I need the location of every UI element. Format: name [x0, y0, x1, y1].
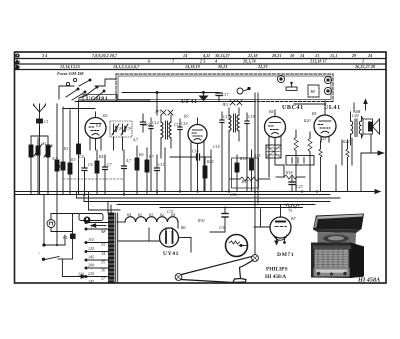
tube UBC41 label	[282, 105, 304, 111]
svg-text:R16: R16	[239, 156, 246, 161]
label Fono-GM-DE	[57, 71, 84, 76]
mains autotransformer	[109, 213, 118, 282]
choke tap labels	[127, 212, 175, 217]
svg-text:4,11: 4,11	[202, 53, 210, 58]
dashed socket box B9	[308, 85, 319, 97]
pilot lamp	[47, 214, 79, 232]
svg-text:HI 458/A: HI 458/A	[265, 274, 286, 280]
wires under tubes to bus	[90, 136, 281, 155]
AVC dashed line	[63, 178, 123, 180]
wave change switch S1	[66, 78, 116, 100]
svg-text:64: 64	[127, 212, 131, 217]
svg-text:200: 200	[88, 263, 94, 268]
svg-text:C11: C11	[158, 162, 164, 167]
top rail y101.5	[75, 101, 255, 103]
svg-text:R6: R6	[138, 152, 143, 157]
padder trimmer dotted box	[110, 121, 132, 137]
antenna	[34, 104, 46, 194]
svg-text:35: 35	[101, 260, 105, 265]
wire inside chassis box	[122, 92, 219, 94]
resistor R16 vertical	[235, 155, 239, 179]
svg-text:110: 110	[88, 237, 94, 242]
ground near dashed box	[200, 93, 208, 101]
svg-text:B5: B5	[312, 111, 316, 116]
svg-text:14: 14	[183, 53, 187, 58]
svg-text:230: 230	[78, 272, 84, 277]
svg-text:B:: B:	[15, 64, 21, 69]
tube DM71 label	[277, 252, 294, 258]
svg-text:DM71: DM71	[277, 252, 294, 258]
left component row: C7	[103, 155, 108, 194]
tube UL41 B5	[312, 108, 336, 142]
svg-text:75: 75	[288, 208, 292, 213]
svg-text:KL: KL	[62, 235, 69, 240]
svg-text:PHILIPS: PHILIPS	[266, 267, 288, 273]
dial lamp box	[79, 214, 103, 224]
socket circle left	[277, 75, 284, 82]
speaker cone frame	[181, 257, 253, 283]
staircase feed lines	[77, 192, 341, 208]
chassis rear dashed box	[116, 74, 333, 102]
svg-text:R15: R15	[253, 153, 260, 158]
resistor 22k below tube	[77, 142, 81, 194]
component box right of UBC41	[286, 156, 314, 166]
svg-text:C44: C44	[352, 113, 359, 118]
svg-text:C12: C12	[152, 120, 159, 125]
JF1 side caps	[149, 118, 182, 138]
svg-text:A:: A:	[15, 59, 21, 64]
cap C23	[289, 177, 295, 192]
svg-text:C13: C13	[174, 122, 181, 127]
component C11	[155, 155, 160, 194]
svg-text:Fono-GM-DE: Fono-GM-DE	[57, 71, 84, 76]
svg-text:12,14,13,15: 12,14,13,15	[60, 64, 80, 69]
svg-text:14,18,19: 14,18,19	[185, 64, 201, 69]
table row C numbers	[41, 53, 372, 58]
svg-text:145: 145	[88, 255, 94, 260]
up arrow below box right	[355, 100, 367, 115]
IF transformer JF2	[229, 100, 242, 150]
title table lines	[15, 59, 387, 70]
svg-text:C31: C31	[167, 209, 174, 214]
svg-text:R21: R21	[319, 136, 326, 141]
svg-text:22,18: 22,18	[247, 53, 258, 58]
svg-text:B4: B4	[269, 109, 273, 114]
tube UBC41 B4	[265, 109, 286, 150]
mains switch	[38, 235, 73, 260]
socket circles right pair	[324, 76, 331, 94]
svg-text:C9: C9	[126, 126, 131, 131]
right edge arrow	[361, 151, 384, 191]
filter choke	[117, 217, 178, 228]
svg-text:33: 33	[101, 242, 105, 247]
network box around R15 R16	[232, 158, 259, 188]
svg-text:B9: B9	[311, 89, 315, 94]
KL connector	[62, 214, 75, 260]
svg-text:14,1,2,3,4,5,6,7: 14,1,2,3,4,5,6,7	[113, 64, 140, 69]
svg-text:C4: C4	[79, 154, 84, 159]
speaker eyelet left	[175, 274, 182, 281]
long vertical pair wires	[247, 93, 258, 254]
svg-text:R30: R30	[197, 218, 204, 223]
main bus with arrow	[15, 190, 381, 194]
svg-text:C17: C17	[222, 92, 230, 97]
svg-text:R20: R20	[303, 118, 310, 123]
svg-text:13: 13	[315, 53, 319, 58]
output transformer	[351, 112, 364, 145]
svg-text:B2: B2	[103, 113, 107, 118]
svg-text:R22: R22	[342, 139, 349, 144]
svg-text:C23: C23	[296, 184, 303, 189]
label JF2	[222, 102, 228, 107]
resistor R20 zigzag	[308, 132, 312, 191]
svg-text:B6: B6	[181, 225, 185, 230]
svg-text:UL41: UL41	[324, 105, 341, 111]
tube UCH81 B2	[85, 112, 107, 150]
radio illustration	[311, 214, 364, 279]
left component row: R2	[55, 150, 59, 194]
svg-text:C30: C30	[230, 192, 237, 197]
top rail y108.5 left	[63, 108, 95, 110]
speaker magnet	[226, 235, 248, 257]
resistor R27 zigzag	[319, 141, 322, 191]
tube DM71 B7	[270, 205, 296, 245]
svg-text:2 3: 2 3	[199, 59, 205, 64]
left component row: R3	[68, 150, 72, 194]
svg-text:245: 245	[88, 279, 94, 284]
svg-text:UBC41: UBC41	[282, 105, 304, 111]
antenna coil L1	[29, 136, 33, 194]
value labels scatter	[41, 113, 359, 223]
svg-text:HI 458A: HI 458A	[357, 277, 380, 284]
svg-text:61: 61	[138, 212, 142, 217]
svg-text:C10: C10	[143, 122, 150, 127]
left component row: C5	[61, 152, 65, 194]
IF transformer JF1	[161, 110, 173, 158]
resistor R24 horizontal	[286, 204, 299, 213]
resistor R19 zigzag	[294, 130, 298, 191]
svg-text:C6: C6	[88, 162, 93, 167]
svg-text:15,1: 15,1	[330, 53, 337, 58]
top rail y104	[294, 103, 326, 105]
svg-text:34: 34	[101, 251, 105, 256]
speaker eyelet right	[252, 255, 259, 262]
resistor R18	[276, 175, 305, 179]
oscillator stage box	[79, 100, 151, 142]
component R6	[135, 146, 139, 194]
svg-text:C18: C18	[223, 114, 230, 119]
svg-text:R1: R1	[63, 146, 68, 151]
svg-text:B3: B3	[184, 114, 188, 119]
radio handwritten label HI458A	[357, 277, 380, 284]
svg-text:JF2: JF2	[222, 102, 228, 107]
resistor R15 vertical	[250, 150, 254, 179]
svg-text:UCH81: UCH81	[86, 96, 108, 102]
svg-text:C15: C15	[181, 121, 188, 126]
svg-text:213,18 17: 213,18 17	[309, 59, 328, 64]
left component row: R4	[95, 150, 99, 194]
svg-text:4: 4	[214, 59, 217, 64]
svg-text:C1: C1	[44, 119, 49, 124]
tube UL41 label	[324, 105, 341, 111]
svg-text:24: 24	[367, 53, 372, 58]
ground bus second line	[15, 194, 331, 196]
svg-text:C8: C8	[117, 126, 122, 131]
svg-text:C19: C19	[248, 114, 255, 119]
radio grille texture	[315, 250, 349, 268]
svg-text:30,13,27: 30,13,27	[214, 53, 231, 58]
svg-text:JF1: JF1	[155, 109, 161, 114]
PHILIPS label	[265, 267, 288, 281]
misc vertical wires to bus	[151, 93, 354, 192]
resistor R22 zigzag	[342, 140, 349, 191]
svg-text:C16: C16	[192, 149, 199, 154]
transformer taps	[85, 222, 109, 278]
capacitor C10	[141, 114, 146, 132]
svg-text:20,1,74: 20,1,74	[242, 59, 256, 64]
transformer feed arrows	[90, 224, 106, 234]
loudspeaker	[363, 119, 380, 153]
svg-text:3 4: 3 4	[41, 53, 47, 58]
svg-text:20,21: 20,21	[217, 64, 227, 69]
tube UY41 B6	[160, 225, 186, 247]
svg-text:C:: C:	[16, 53, 21, 58]
capacitor C30	[219, 207, 228, 230]
capacitor C17 by dashed box	[216, 92, 230, 101]
svg-text:C14: C14	[213, 144, 220, 149]
svg-text:2: 2	[90, 226, 92, 231]
component R7	[145, 148, 149, 194]
resistor R25 vertical	[203, 157, 207, 191]
component C9 cap	[122, 150, 127, 194]
wire antenna top	[31, 127, 48, 136]
phono pickup jack	[237, 87, 250, 94]
svg-text:220: 220	[88, 271, 94, 276]
table row A label	[15, 59, 21, 64]
svg-text:A2: A2	[51, 156, 56, 161]
table row A numbers	[148, 59, 364, 64]
tube UF41 label	[181, 99, 197, 105]
capacitor C16 horizontal	[170, 149, 211, 161]
svg-text:63: 63	[149, 212, 153, 217]
svg-text:R4: R4	[98, 154, 103, 159]
potentiometer 4.7M in box	[286, 82, 297, 90]
svg-text:1: 1	[362, 59, 364, 64]
electrolytic block C22	[266, 138, 281, 177]
tap voltage labels	[88, 224, 106, 285]
svg-text:7,8,9,20,2 20,7: 7,8,9,20,2 20,7	[92, 53, 118, 58]
mains lead arrow	[62, 259, 86, 278]
svg-text:22,23: 22,23	[257, 64, 267, 69]
interconnect wires top left	[57, 86, 74, 152]
JF2 side caps	[220, 112, 249, 132]
table row B numbers	[60, 64, 376, 69]
svg-text:36: 36	[101, 268, 105, 273]
svg-text:62: 62	[160, 212, 164, 217]
DM71 wires	[254, 209, 270, 227]
svg-text:28,21: 28,21	[271, 53, 281, 58]
tube UCH81 label	[83, 95, 117, 103]
svg-text:29: 29	[351, 53, 357, 58]
resistor network below UBC41: R17	[230, 177, 270, 181]
svg-text:R17: R17	[241, 179, 249, 184]
antenna trimmer C3	[34, 138, 42, 194]
table row C label	[16, 53, 21, 58]
svg-text:26,25,27 28: 26,25,27 28	[354, 64, 376, 69]
svg-text:125: 125	[88, 246, 94, 251]
antenna coil L2	[44, 136, 52, 194]
wire right mid	[335, 165, 337, 191]
tube UY41 label	[163, 251, 179, 257]
svg-text:A1: A1	[41, 141, 46, 146]
table row B label	[15, 64, 21, 69]
svg-text:R25: R25	[206, 159, 213, 164]
svg-text:UY41: UY41	[163, 251, 179, 257]
svg-text:R18: R18	[285, 170, 292, 175]
label JF1	[155, 109, 161, 114]
wires bottom middle	[44, 195, 225, 253]
left component row: C6 cap	[82, 158, 87, 194]
svg-text:14: 14	[300, 53, 304, 58]
tube UF41 B3	[184, 114, 207, 156]
svg-text:R3: R3	[70, 157, 75, 162]
svg-text:UF41: UF41	[181, 99, 197, 105]
svg-text:R2: R2	[58, 164, 63, 169]
antenna series capacitor	[37, 119, 49, 124]
junction dots	[83, 190, 318, 195]
